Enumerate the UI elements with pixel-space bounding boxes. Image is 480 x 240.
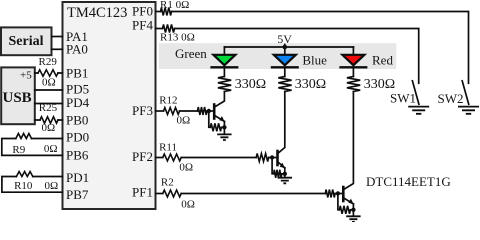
svg-text:330Ω: 330Ω bbox=[295, 77, 326, 92]
svg-text:R10: R10 bbox=[14, 180, 33, 192]
resistor R13 0 ohm on PF4 bbox=[156, 25, 195, 44]
wire emitter node down bbox=[223, 121, 225, 134]
svg-text:USB: USB bbox=[3, 90, 32, 106]
svg-text:R12: R12 bbox=[159, 94, 177, 106]
resistor R12 0 ohm on PF3 bbox=[156, 94, 191, 126]
svg-text:SW2: SW2 bbox=[438, 91, 464, 106]
svg-text:330Ω: 330Ω bbox=[235, 77, 266, 92]
transistor Q PF3 NPN bbox=[214, 92, 225, 122]
svg-text:PB0: PB0 bbox=[66, 112, 88, 127]
junction dot base node bbox=[207, 109, 211, 113]
svg-text:R9: R9 bbox=[12, 144, 25, 156]
svg-text:0Ω: 0Ω bbox=[45, 180, 59, 192]
svg-text:PF1: PF1 bbox=[132, 185, 153, 200]
svg-text:Green: Green bbox=[175, 46, 207, 61]
switch SW2 bbox=[438, 81, 469, 106]
svg-text:PD0: PD0 bbox=[66, 130, 89, 145]
svg-text:R11: R11 bbox=[159, 142, 177, 154]
svg-text:Red: Red bbox=[372, 52, 393, 67]
junction dot base node bbox=[336, 191, 340, 195]
resistor R11 0 ohm on PF2 bbox=[156, 142, 194, 174]
wire emitter node down bbox=[352, 204, 354, 216]
USB connector with +5 supply bbox=[1, 67, 35, 124]
resistor R25 0 ohm, USB to PB0 bbox=[35, 102, 63, 134]
wire PF0 to SW2 bbox=[172, 12, 469, 84]
wire USB to PD4 bbox=[35, 103, 63, 105]
resistor 330 ohm blue channel bbox=[278, 77, 326, 93]
resistor R29 0 ohm, USB +5 to PB1 bbox=[35, 56, 63, 89]
base resistor of PF2 transistor bbox=[256, 154, 269, 162]
svg-text:0Ω: 0Ω bbox=[177, 115, 191, 127]
resistor 330 ohm green channel bbox=[218, 77, 266, 93]
resistor R10 0 ohm jumper, PD1 to PB7 bbox=[2, 172, 63, 193]
wire PF4 to SW1 bbox=[175, 29, 419, 84]
wire serial to PA0 bbox=[52, 48, 63, 50]
base resistor of PF3 transistor bbox=[198, 107, 208, 115]
base-emitter resistor of PF2 transistor bbox=[272, 158, 285, 178]
ground PF2 transistor bbox=[278, 178, 292, 184]
serial connector bbox=[1, 27, 52, 55]
svg-text:PB7: PB7 bbox=[66, 187, 89, 202]
svg-text:PF0: PF0 bbox=[132, 4, 153, 19]
wire R12 to base resistor bbox=[180, 110, 198, 112]
svg-text:0Ω: 0Ω bbox=[42, 122, 56, 134]
base resistor of PF1 transistor bbox=[325, 190, 335, 198]
svg-text:PF4: PF4 bbox=[132, 18, 153, 33]
ground PF1 transistor bbox=[346, 216, 360, 222]
svg-text:PB6: PB6 bbox=[66, 148, 89, 163]
svg-text:DTC114EET1G: DTC114EET1G bbox=[366, 174, 451, 189]
wire R2 to base resistor bbox=[181, 193, 325, 195]
svg-text:R1 0Ω: R1 0Ω bbox=[160, 0, 189, 11]
svg-text:0Ω: 0Ω bbox=[44, 143, 58, 155]
svg-text:R2: R2 bbox=[161, 176, 174, 188]
wire base resistor to base bbox=[269, 157, 278, 159]
junction dot base node bbox=[270, 155, 274, 159]
wire USB to PD5 bbox=[35, 89, 63, 91]
wire emitter node down bbox=[284, 168, 286, 178]
LED D2 blue bbox=[271, 55, 299, 77]
svg-text:Blue: Blue bbox=[302, 52, 327, 67]
junction dot emitter node bbox=[351, 208, 355, 212]
junction dot 5V rail bbox=[283, 45, 288, 50]
resistor R9 0 ohm jumper, PD0 to PB6 bbox=[2, 134, 63, 156]
wire 5V feed to rail bbox=[284, 45, 286, 55]
microcontroller U1 TM4C123 bbox=[63, 2, 156, 209]
svg-text:Serial: Serial bbox=[9, 34, 44, 49]
svg-text:0Ω: 0Ω bbox=[42, 77, 56, 89]
junction dot emitter node bbox=[283, 172, 287, 176]
wire rail to green LED anode bbox=[223, 47, 225, 54]
ground SW2 bbox=[458, 107, 479, 114]
LED D1 green bbox=[210, 55, 238, 77]
svg-text:+5: +5 bbox=[20, 70, 32, 82]
resistor R2 0 ohm on PF1 bbox=[156, 176, 195, 210]
junction dot emitter node bbox=[222, 125, 226, 129]
resistor R1 0 ohm on PF0 bbox=[156, 0, 190, 16]
svg-text:R25: R25 bbox=[39, 102, 58, 114]
transistor Q PF2 NPN bbox=[278, 92, 286, 169]
resistor 330 ohm red channel bbox=[347, 77, 395, 93]
svg-text:PF2: PF2 bbox=[132, 149, 153, 164]
svg-text:SW1: SW1 bbox=[390, 91, 416, 106]
svg-text:PB1: PB1 bbox=[66, 65, 88, 80]
wire 5V anode rail bbox=[224, 46, 353, 48]
base-emitter resistor of PF1 transistor bbox=[338, 194, 354, 214]
svg-text:PD1: PD1 bbox=[66, 170, 89, 185]
svg-text:R29: R29 bbox=[39, 56, 58, 68]
ground PF3 transistor bbox=[217, 134, 231, 140]
LED D3 red bbox=[339, 55, 367, 77]
ground SW1 bbox=[408, 107, 429, 114]
wire serial to PA1 bbox=[52, 36, 63, 38]
switch SW1 bbox=[390, 81, 419, 106]
svg-text:TM4C123: TM4C123 bbox=[67, 5, 127, 21]
wire R11 to base resistor bbox=[181, 157, 256, 159]
svg-text:R13 0Ω: R13 0Ω bbox=[160, 31, 195, 43]
base-emitter resistor of PF3 transistor bbox=[209, 111, 225, 131]
wire base resistor to base bbox=[207, 110, 214, 112]
wire base resistor to base bbox=[335, 193, 343, 195]
svg-text:0Ω: 0Ω bbox=[179, 162, 193, 174]
transistor Q PF1 NPN bbox=[343, 92, 353, 205]
svg-text:PF3: PF3 bbox=[132, 103, 153, 118]
wire rail to red LED anode bbox=[352, 47, 354, 54]
svg-text:PA0: PA0 bbox=[66, 42, 88, 57]
svg-text:0Ω: 0Ω bbox=[181, 198, 195, 210]
svg-text:PD4: PD4 bbox=[66, 95, 90, 110]
